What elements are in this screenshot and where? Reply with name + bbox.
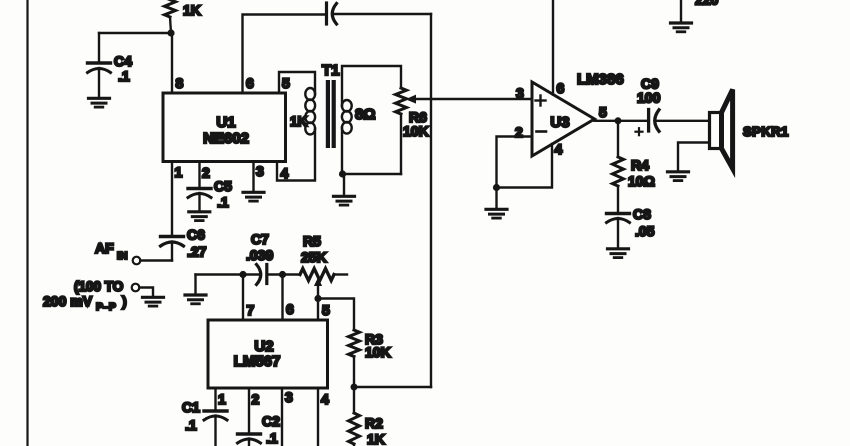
node pin 6 / R5 <box>279 271 286 278</box>
pin 5 label (U3 output) <box>599 104 607 120</box>
transformer T1 core <box>322 62 340 148</box>
ground (220 bypass, top right) <box>671 0 719 32</box>
potentiometer R6 <box>396 88 429 139</box>
svg-text:220: 220 <box>695 0 719 8</box>
svg-text:IN: IN <box>117 250 128 262</box>
svg-text:.1: .1 <box>217 194 229 210</box>
svg-text:2: 2 <box>252 391 260 407</box>
capacitor C8 <box>607 186 655 248</box>
wire R5 right lead <box>334 273 347 275</box>
ground (U3 pins 2/4) <box>486 188 507 219</box>
svg-text:P–P: P–P <box>96 301 116 313</box>
svg-text:U3: U3 <box>550 114 569 131</box>
wire junction to R6 <box>343 173 402 175</box>
potentiometer R5 <box>300 233 334 281</box>
capacitor C4 <box>88 33 133 97</box>
svg-text:): ) <box>122 293 127 309</box>
svg-text:.039: .039 <box>246 247 273 263</box>
wire coupling cap to feedback line <box>333 13 432 15</box>
wire pin 2 loop to pin 4 <box>497 137 553 188</box>
svg-text:C4: C4 <box>114 53 132 69</box>
terminal AF IN <box>95 240 172 264</box>
pin 6 label (U3) <box>557 80 565 96</box>
svg-text:6: 6 <box>246 75 254 91</box>
C9 plus sign <box>636 128 643 135</box>
node output <box>615 117 622 124</box>
pin 5 label (U2) <box>322 302 330 318</box>
svg-text:C1: C1 <box>182 399 200 415</box>
ground (left of C7 node) <box>185 275 206 304</box>
wire pin 6 stub U2 <box>281 275 283 321</box>
wire node to C7 <box>243 273 259 275</box>
pin 1 label <box>175 164 183 180</box>
svg-text:3: 3 <box>285 389 293 405</box>
capacitor C5 <box>188 162 232 211</box>
ground (under C8) <box>608 249 629 258</box>
pin 3 label <box>256 163 264 179</box>
wire pin 3 stub U2 <box>281 388 283 446</box>
op-amp U3 LM386 triangle <box>532 71 624 156</box>
node pin2/pin4 ground <box>493 184 500 191</box>
U3 minus sign <box>537 130 547 133</box>
speaker SPKR1 <box>710 90 789 169</box>
svg-text:C5: C5 <box>214 178 232 194</box>
node pin 7 / C7 <box>239 271 246 278</box>
svg-text:.27: .27 <box>187 244 207 260</box>
node junction under 1K <box>167 29 174 36</box>
pin 2 label (U2) <box>252 391 260 407</box>
pin 6 label <box>246 75 254 91</box>
capacitor C9 <box>637 76 661 132</box>
pin 6 label (U2) <box>286 301 294 317</box>
svg-text:4: 4 <box>555 141 563 157</box>
svg-text:(100 TO: (100 TO <box>74 279 123 294</box>
capacitor C6 <box>161 227 207 261</box>
wire feedback vertical <box>430 14 432 387</box>
wire pin 5 stub U2 <box>317 299 319 321</box>
pin 3 label (U2) <box>285 389 293 405</box>
svg-text:100: 100 <box>637 90 661 106</box>
svg-text:1: 1 <box>175 164 183 180</box>
R5 wiper arrow <box>314 278 322 299</box>
svg-text:1K: 1K <box>183 2 201 18</box>
pin 7 label <box>247 302 255 318</box>
pin 2 label <box>202 165 210 181</box>
U3 plus sign <box>536 96 546 106</box>
svg-text:C6: C6 <box>187 227 205 243</box>
pin 1 label (U2) <box>218 391 226 407</box>
svg-text:4: 4 <box>321 391 329 407</box>
svg-text:T1: T1 <box>322 62 340 79</box>
svg-text:.1: .1 <box>118 68 130 84</box>
wire C7 to pin 6 node <box>267 273 300 275</box>
wire node to C4 <box>99 32 171 34</box>
svg-text:1K: 1K <box>367 431 385 446</box>
border frame left edge <box>26 0 28 446</box>
svg-text:U1: U1 <box>216 114 235 131</box>
wire pin 7 stub U2 <box>242 275 244 321</box>
wire R6 bottom <box>400 114 402 174</box>
capacitor C7 <box>246 231 273 285</box>
svg-text:8: 8 <box>176 75 184 91</box>
svg-text:200 mV: 200 mV <box>43 293 93 309</box>
wire pin 3 to ground <box>252 162 254 192</box>
wire 1K to node <box>170 17 171 33</box>
pin 3 label (U3) <box>516 85 524 101</box>
transformer T1 secondary winding <box>342 100 375 134</box>
svg-text:8Ω: 8Ω <box>355 106 375 123</box>
svg-text:LM386: LM386 <box>577 71 624 88</box>
wire node to R2 <box>353 387 355 413</box>
svg-text:C2: C2 <box>262 413 280 429</box>
svg-text:.05: .05 <box>635 223 655 239</box>
resistor R3 <box>349 330 391 360</box>
wire pin 6 up and to coupling cap <box>243 15 326 94</box>
ground (terminal 2) <box>143 297 164 306</box>
wire pin 4 stub U2 <box>317 388 319 446</box>
wire pin 1 down to C6 <box>171 162 173 237</box>
terminal (100 TO 200 mV P-P) <box>43 279 153 313</box>
IC U2 LM567 box <box>208 320 328 388</box>
svg-text:4: 4 <box>281 165 289 181</box>
wire C9 to speaker <box>656 120 710 122</box>
svg-text:3: 3 <box>516 85 524 101</box>
svg-text:25K: 25K <box>301 249 327 265</box>
svg-text:5: 5 <box>599 104 607 120</box>
wire pin 1 stub U2 <box>214 388 216 410</box>
svg-text:C8: C8 <box>633 206 651 222</box>
wire pin 2 stub U2 <box>248 388 250 433</box>
node R5 wiper / pin 5 <box>314 295 321 302</box>
svg-text:LM567: LM567 <box>234 353 281 370</box>
resistor R4 <box>613 121 655 189</box>
svg-text:C7: C7 <box>251 231 269 247</box>
pin 4 label (U3) <box>555 141 563 157</box>
ground (U1 pin 3) <box>243 192 264 201</box>
svg-text:10Ω: 10Ω <box>628 173 655 189</box>
svg-text:AF: AF <box>95 240 114 256</box>
svg-text:5: 5 <box>322 302 330 318</box>
svg-text:6: 6 <box>286 301 294 317</box>
wire pin 4 to primary bottom <box>277 129 315 181</box>
svg-text:.1: .1 <box>185 417 197 433</box>
pin 5 label <box>282 75 290 91</box>
svg-text:R2: R2 <box>365 415 383 431</box>
capacitor C2 <box>238 413 281 446</box>
wire R6 wiper to U3 pin 3 <box>406 95 533 104</box>
pin 2 label (U3) <box>515 124 523 140</box>
node R3/R2 <box>351 384 358 391</box>
wire secondary bottom <box>341 128 343 174</box>
wire node to pin 8 <box>171 33 173 93</box>
wire speaker bottom lead <box>678 143 710 171</box>
svg-text:1: 1 <box>218 391 226 407</box>
svg-text:R5: R5 <box>303 233 321 249</box>
IC U1 NE602 box <box>163 93 286 162</box>
transformer T1 primary winding <box>290 88 315 135</box>
wire pin 5 to transformer primary <box>279 72 315 94</box>
svg-text:10K: 10K <box>403 123 429 139</box>
wire U3 output <box>595 120 648 122</box>
ground (speaker) <box>668 172 689 181</box>
pin 4 label <box>281 165 289 181</box>
svg-text:2: 2 <box>202 165 210 181</box>
svg-text:.1: .1 <box>266 430 278 446</box>
wire R3 to node <box>353 357 355 388</box>
pin 4 label (U2) <box>321 391 329 407</box>
capacitor (coupling, top) <box>327 3 337 24</box>
node secondary/R6 junction <box>339 170 346 177</box>
wire ground to pin 7 node <box>196 273 244 275</box>
ground (under T1 secondary) <box>334 174 355 205</box>
svg-text:SPKR1: SPKR1 <box>743 124 789 139</box>
wire secondary top to R6 <box>342 66 401 106</box>
svg-text:5: 5 <box>282 75 290 91</box>
ground (under C5) <box>189 212 210 221</box>
svg-text:R4: R4 <box>631 157 649 173</box>
resistor 1K (top, cut off) <box>165 0 201 18</box>
wire feedback bottom to R3/R2 node <box>354 386 431 388</box>
wire pin 6 stub (U3) <box>552 0 554 95</box>
ground (under C4) <box>89 98 110 107</box>
wire wiper node to R3 <box>318 299 354 331</box>
svg-text:7: 7 <box>247 302 255 318</box>
pin 8 label <box>176 75 184 91</box>
svg-text:3: 3 <box>256 163 264 179</box>
svg-text:10K: 10K <box>365 344 391 360</box>
svg-text:6: 6 <box>557 80 565 96</box>
svg-text:NE602: NE602 <box>203 130 249 147</box>
svg-text:1K: 1K <box>290 114 308 129</box>
resistor R2 <box>349 413 385 446</box>
capacitor C1 <box>182 399 227 446</box>
